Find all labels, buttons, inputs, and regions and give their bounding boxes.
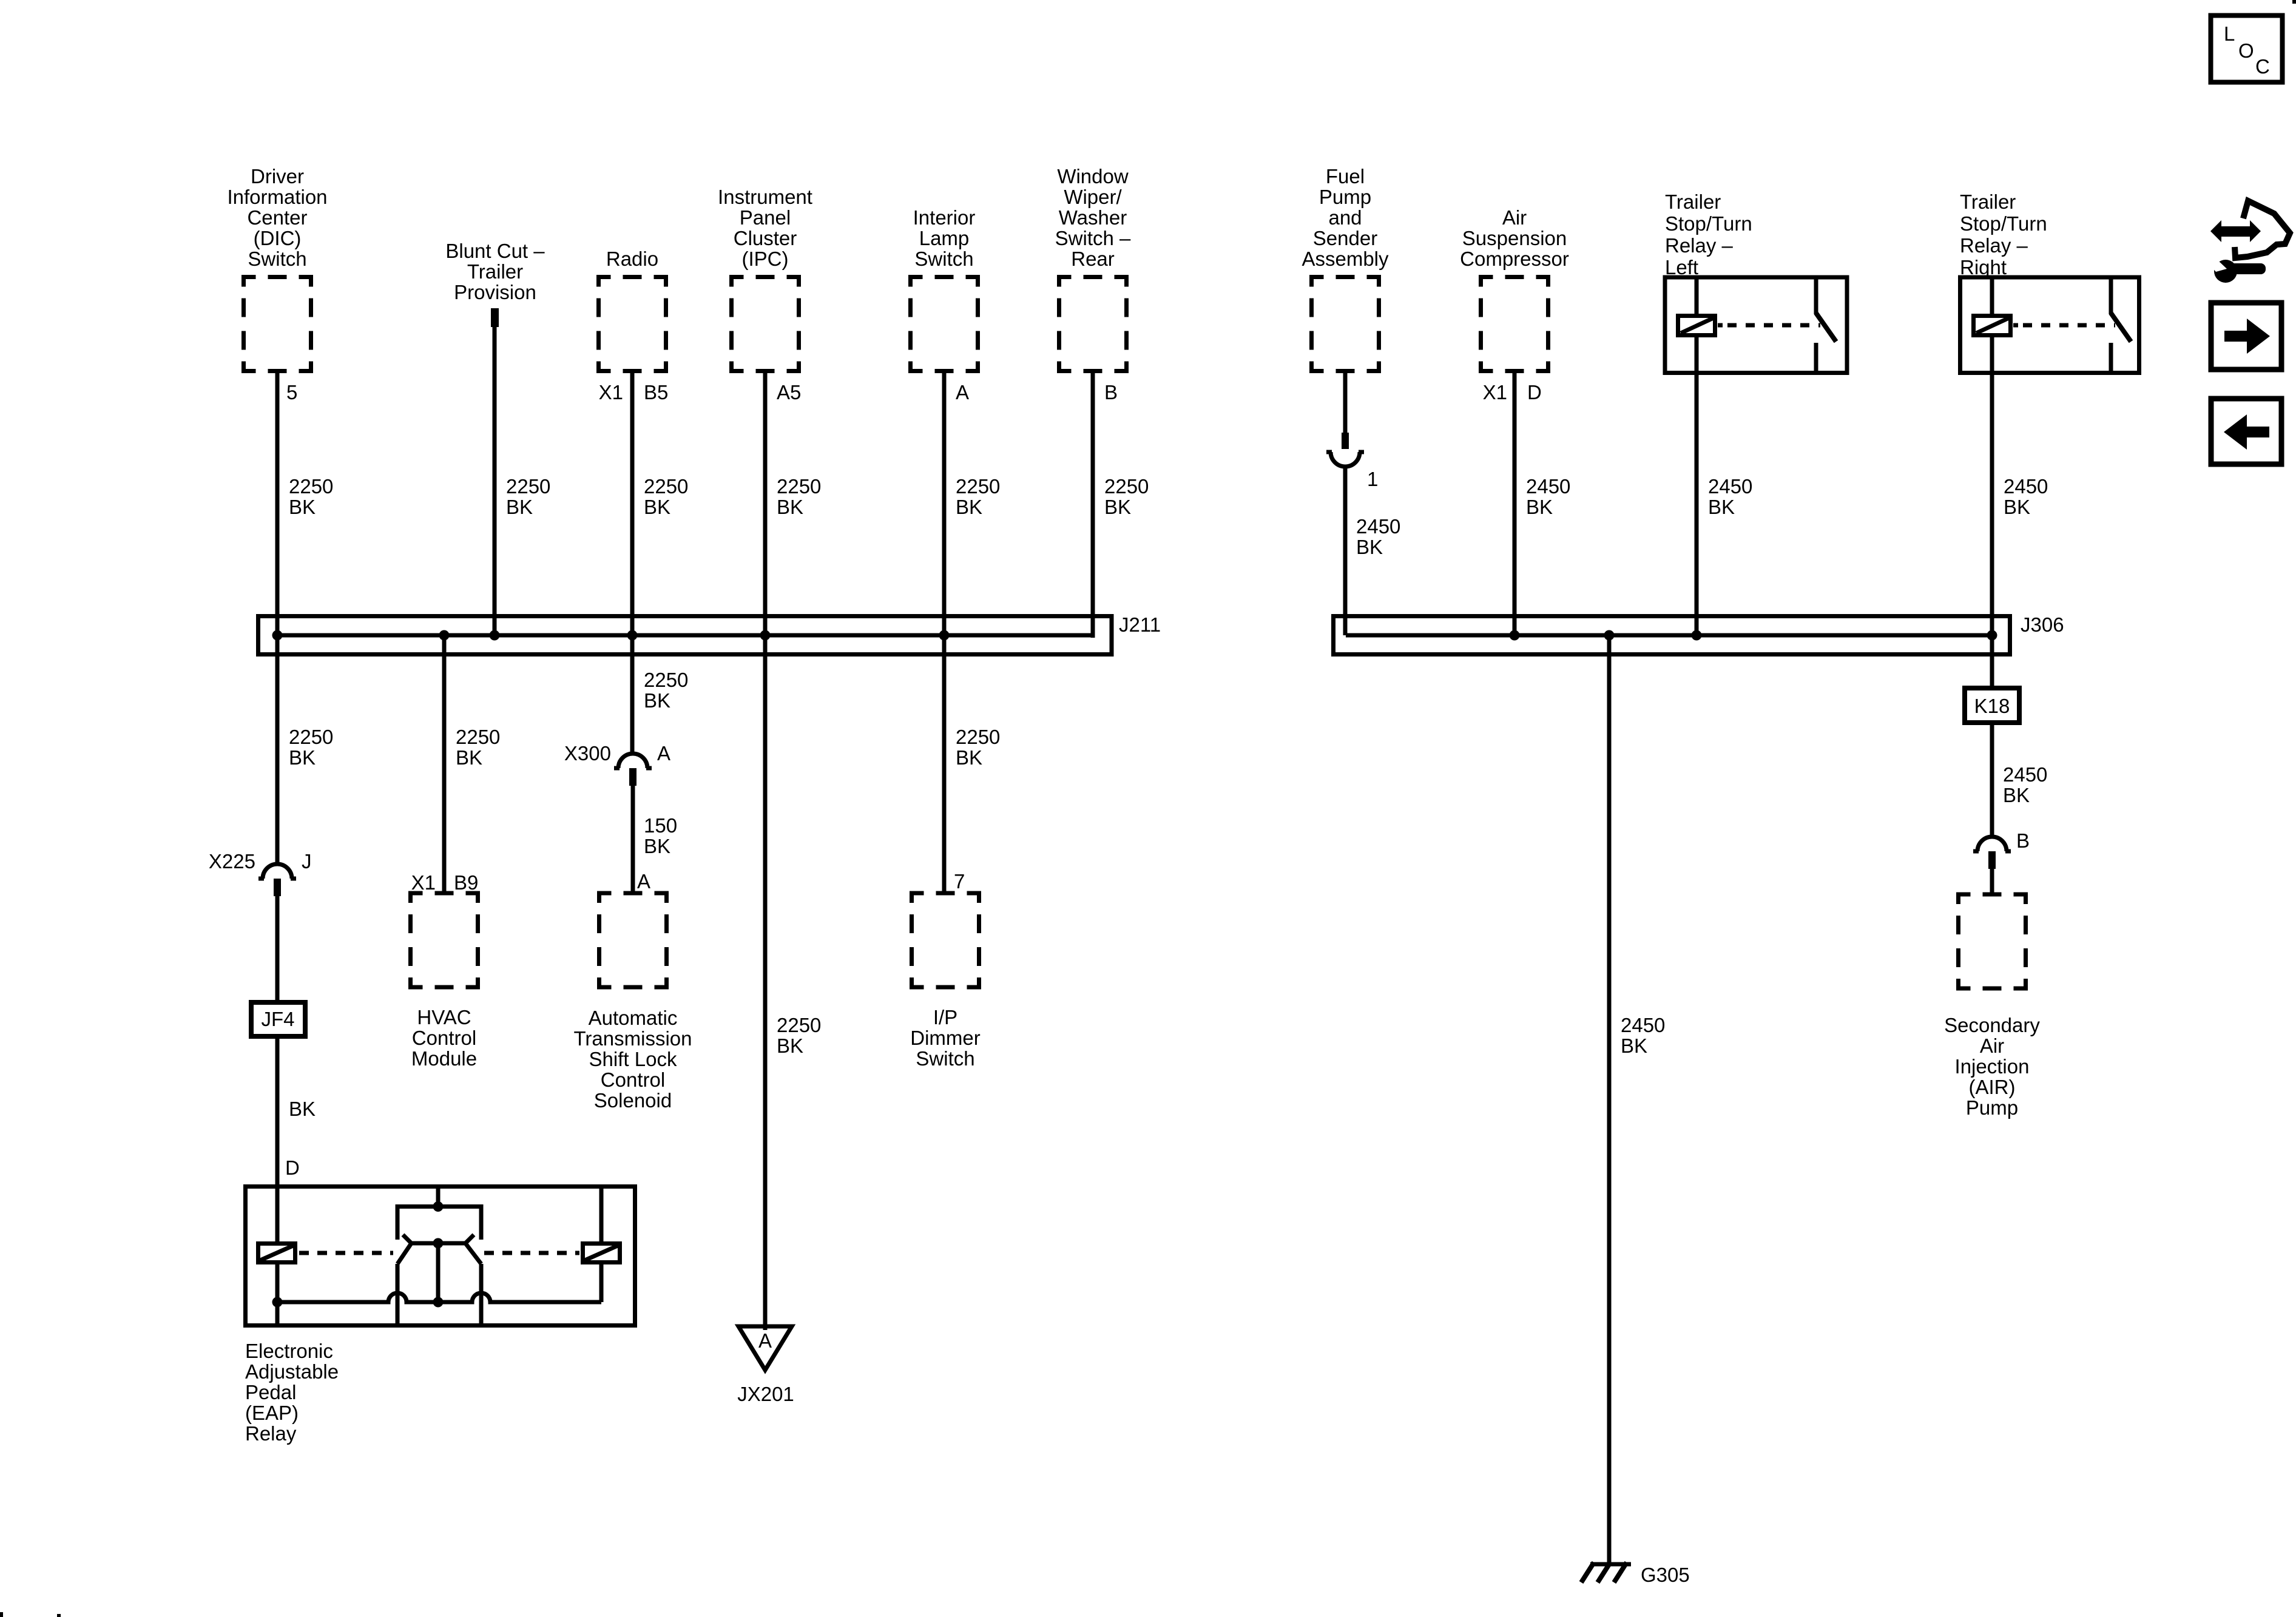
wire fuel pump to connector [1343,371,1348,434]
svg-text:X225: X225 [209,850,255,873]
svg-text:J306: J306 [2021,613,2064,636]
EAP dashed actuate line left [299,1251,393,1255]
junction dot radio [627,630,638,641]
trailer relay right switch blade [2111,313,2131,342]
J306 inner bus line [1346,633,1992,638]
svg-text:Information: Information [227,186,327,208]
svg-text:BK: BK [1621,1035,1647,1057]
wire EAP left coil lower [275,1263,280,1325]
splice pack JF4 box [251,1002,305,1036]
junction dot relay left [1692,630,1702,641]
svg-text:Stop/Turn: Stop/Turn [1960,212,2047,235]
fuel connector cup [1326,452,1364,467]
wire JF4 to EAP relay [275,1036,280,1186]
junction dot DIC [272,630,283,641]
wire EAP center leg [436,1243,441,1302]
svg-text:BK: BK [506,496,533,518]
junction dot G305 wire [1604,630,1615,641]
trailer relay right coil [1974,316,2011,336]
svg-text:Assembly: Assembly [1302,248,1389,270]
ground bus J211 box [258,616,1112,655]
DIC switch label [227,165,327,270]
svg-text:Radio: Radio [606,248,658,270]
svg-text:Rear: Rear [1071,248,1115,270]
EAP switch blade tick right [465,1235,474,1243]
IP dimmer label [910,1006,980,1070]
wire DIC to J211 [275,371,280,636]
svg-text:5: 5 [286,381,297,403]
svg-text:Washer: Washer [1059,206,1127,229]
wire J306 to K18 [1990,635,1994,688]
trailer relay left switch bottom stub [1814,343,1818,373]
svg-text:B: B [2016,829,2030,852]
svg-text:Injection: Injection [1955,1055,2030,1078]
svg-text:2250: 2250 [956,475,1000,498]
svg-text:C: C [2255,55,2270,78]
EAP common horizontal with jumps [277,1293,601,1302]
wire blunt cut to J211 [493,327,497,635]
svg-text:Air: Air [1502,206,1527,229]
svg-text:B9: B9 [454,871,478,894]
svg-text:BK: BK [1104,496,1131,518]
trailer relay left coil stub [1718,323,1723,328]
svg-text:B: B [1104,381,1118,403]
svg-text:Sender: Sender [1313,227,1377,249]
svg-text:Switch: Switch [914,248,973,270]
junction dot relay right [1987,630,1997,641]
svg-text:A: A [637,870,650,893]
svg-text:2450: 2450 [1526,475,1570,498]
trailer relay left dashed actuate line [1727,323,1820,328]
svg-text:HVAC: HVAC [417,1006,471,1028]
svg-text:Provision: Provision [454,281,536,303]
wire EAP right coil upper [599,1186,604,1241]
trailer relay left box [1665,277,1847,373]
EAP staple bridge [397,1207,481,1240]
svg-text:2450: 2450 [2004,475,2048,498]
wire EAP feed top [436,1186,441,1206]
wire J211 to X300 [630,635,635,754]
Interior Lamp Switch dashed box [911,277,978,371]
wire J211 to HVAC [442,635,447,893]
wire EAP switch left leg [396,1264,400,1325]
svg-text:BK: BK [289,746,316,769]
connector X300 arc [614,754,652,768]
Radio dashed box [599,277,666,371]
ground G305 symbol [1581,1562,1631,1582]
wire Wiper to J211 [1091,371,1095,638]
junction dot blunt cut [490,630,500,641]
trailer relay right label [1960,191,2047,279]
Air Suspension label [1460,206,1569,270]
svg-text:Relay –: Relay – [1960,234,2028,257]
EAP switch diagonal left [397,1243,411,1264]
J211 inner bus line [277,633,1093,638]
wire J211 to IP dimmer [942,635,947,893]
svg-text:Dimmer: Dimmer [910,1027,980,1049]
svg-text:(IPC): (IPC) [742,248,789,270]
wire connector B to AIR pump [1990,869,1994,894]
svg-text:Compressor: Compressor [1460,248,1569,270]
svg-text:J211: J211 [1119,613,1161,636]
svg-text:2450: 2450 [1621,1014,1665,1036]
svg-text:O: O [2238,39,2254,62]
EAP switch blade tick left [403,1235,411,1243]
svg-text:BK: BK [1356,536,1383,558]
EAP switch diagonal right [465,1243,481,1264]
Air suspension compressor dashed box [1481,277,1548,371]
fuel connector pin [1342,433,1349,449]
junction dot center leg to common [433,1297,444,1308]
connector X225 pin [274,879,281,896]
svg-text:BK: BK [289,1098,316,1120]
EAP relay left coil [258,1244,295,1263]
svg-text:2450: 2450 [1708,475,1752,498]
svg-text:2250: 2250 [289,726,333,748]
page corner speck top-right [2292,0,2296,4]
AIR pump label [1944,1014,2040,1119]
svg-text:Transmission: Transmission [574,1027,692,1050]
trailer relay left switch stub [1814,277,1818,314]
svg-text:K18: K18 [1974,695,2010,717]
junction dot HVAC [439,630,450,641]
svg-text:Shift Lock: Shift Lock [589,1048,677,1070]
connector AIR pump B arc [1973,837,2011,851]
svg-text:Adjustable: Adjustable [245,1360,339,1383]
wire J211 to JX201 [763,635,768,1330]
junction dot staple feed [433,1201,444,1212]
svg-text:BK: BK [777,496,803,518]
junction dot air suspension [1510,630,1520,641]
svg-text:Lamp: Lamp [919,227,970,249]
svg-text:G305: G305 [1641,1564,1690,1586]
wire air suspension to J306 [1513,371,1517,636]
svg-text:Stop/Turn: Stop/Turn [1665,212,1752,235]
svg-text:A5: A5 [777,381,801,403]
svg-text:BK: BK [777,1035,803,1057]
trailer relay left coil [1678,316,1715,336]
svg-text:2450: 2450 [2003,763,2047,786]
svg-text:Relay: Relay [245,1422,297,1445]
trailer relay left label [1665,191,1752,279]
connector AIR pump B pin [1988,851,1996,869]
EAP relay outer box [246,1187,635,1326]
svg-text:2250: 2250 [506,475,550,498]
wire IPC to J211 [763,371,768,636]
svg-text:Right: Right [1960,256,2007,279]
svg-text:BK: BK [2004,496,2030,518]
svg-text:BK: BK [1526,496,1553,518]
svg-text:Trailer: Trailer [1665,191,1721,213]
IPC dashed box [732,277,799,371]
svg-text:2450: 2450 [1356,515,1400,538]
svg-text:Pump: Pump [1966,1096,2018,1119]
svg-text:2250: 2250 [644,669,688,691]
junction dot interior lamp [939,630,950,641]
service adjust icon: double arrow [2210,220,2261,242]
junction dot IPC [760,630,771,641]
wire trailer relay right coil upper [1990,277,1994,314]
HVAC module dashed box [411,893,478,987]
legend left-arrow button [2211,399,2281,464]
svg-text:Panel: Panel [740,206,791,229]
svg-text:D: D [1527,381,1542,403]
trailer relay right box [1960,277,2139,373]
svg-text:BK: BK [1708,496,1735,518]
HVAC label [411,1006,477,1070]
IP dimmer switch dashed box [912,893,979,987]
svg-text:A: A [758,1329,772,1352]
svg-text:Wiper/: Wiper/ [1064,186,1122,208]
svg-text:X1: X1 [1483,381,1507,403]
svg-text:L: L [2224,22,2235,45]
svg-text:Control: Control [601,1068,665,1091]
Interior Lamp Switch label [913,206,976,270]
svg-text:Fuel: Fuel [1326,165,1365,187]
wire trailer relay right to J306 [1990,373,1994,635]
svg-text:2250: 2250 [1104,475,1149,498]
svg-text:2250: 2250 [644,475,688,498]
svg-text:J: J [302,850,312,873]
svg-text:Switch: Switch [916,1047,974,1070]
trailer relay right coil stub [2013,323,2018,328]
svg-text:2250: 2250 [289,475,333,498]
trailer relay right switch bottom stub [2109,343,2113,373]
svg-text:Control: Control [412,1027,476,1049]
secondary AIR pump dashed box [1959,894,2026,988]
wire trailer relay left coil upper [1695,277,1699,314]
Blunt Cut label [445,240,545,303]
svg-text:Window: Window [1057,165,1129,187]
ground bus J306 box [1334,616,2010,655]
svg-text:D: D [285,1156,300,1179]
trailer relay right switch stub [2109,277,2113,314]
svg-text:7: 7 [954,870,965,893]
EAP switch common bar [411,1241,465,1246]
svg-text:Solenoid: Solenoid [594,1089,672,1112]
svg-text:Suspension: Suspension [1462,227,1567,249]
service adjust icon: wrench [2211,258,2266,283]
svg-text:BK: BK [644,689,670,712]
wire X300 to solenoid [631,786,635,893]
svg-text:A: A [956,381,969,403]
connector X300 pin [629,768,636,786]
svg-text:X300: X300 [564,742,611,765]
svg-text:I/P: I/P [933,1006,957,1028]
svg-text:Relay –: Relay – [1665,234,1734,257]
EAP dashed actuate line right [484,1251,579,1255]
svg-text:BK: BK [289,496,316,518]
svg-text:and: and [1328,206,1362,229]
svg-text:Air: Air [1980,1035,2004,1057]
IPC label [718,186,812,270]
page corner specks bottom-left [0,1612,3,1617]
legend LOC box [2211,16,2283,83]
svg-text:X1: X1 [599,381,623,403]
svg-text:Electronic: Electronic [245,1340,333,1362]
svg-text:X1: X1 [411,871,436,894]
svg-text:A: A [657,742,670,765]
svg-text:JX201: JX201 [737,1383,794,1405]
svg-text:(AIR): (AIR) [1969,1076,2016,1098]
trailer relay left switch blade [1816,313,1836,342]
svg-text:2250: 2250 [456,726,500,748]
svg-text:Left: Left [1665,256,1698,279]
svg-text:2250: 2250 [777,1014,821,1036]
solenoid label [574,1007,692,1112]
Wiper switch dashed box [1059,277,1127,371]
wire Radio to J211 [630,371,635,636]
svg-text:JF4: JF4 [261,1008,294,1030]
svg-text:Cluster: Cluster [734,227,797,249]
svg-text:Module: Module [411,1047,477,1070]
svg-text:Switch: Switch [248,248,306,270]
svg-text:Instrument: Instrument [718,186,812,208]
svg-text:BK: BK [644,835,670,857]
svg-text:Pedal: Pedal [245,1381,296,1403]
wire J306 to G305 [1607,635,1612,1564]
svg-text:1: 1 [1367,468,1378,490]
Fuel Pump label [1302,165,1389,270]
connector X225 arc [258,864,296,879]
svg-text:Secondary: Secondary [1944,1014,2040,1036]
svg-text:2250: 2250 [956,726,1000,748]
wire EAP switch right leg [479,1264,484,1325]
junction dot switch bar [433,1238,444,1249]
wire Interior Lamp to J211 [942,371,947,636]
wire X225 to JF4 [275,896,280,1002]
svg-text:(EAP): (EAP) [245,1402,299,1424]
wire fuel connector to J306 [1343,467,1348,635]
wire trailer relay left to J306 [1695,373,1699,635]
shift lock solenoid dashed box [599,893,667,987]
trailer relay right dashed actuate line [2023,323,2115,328]
svg-text:150: 150 [644,814,677,837]
svg-text:Center: Center [247,206,307,229]
svg-text:BK: BK [2003,784,2030,806]
Fuel pump assembly dashed box [1312,277,1379,371]
svg-text:Trailer: Trailer [467,260,523,283]
svg-text:BK: BK [644,496,670,518]
svg-text:2250: 2250 [777,475,821,498]
wire J211 to X225 [275,635,280,864]
svg-text:Blunt Cut –: Blunt Cut – [445,240,545,262]
Window Wiper Washer Switch Rear label [1055,165,1131,270]
wire trailer relay right coil lower [1990,336,1994,373]
legend right-arrow button [2211,303,2281,370]
svg-text:BK: BK [956,496,982,518]
EAP relay right coil [583,1244,620,1263]
svg-text:B5: B5 [644,381,668,403]
svg-text:BK: BK [456,746,482,769]
blunt cut tip [491,308,499,327]
service adjust icon: pedal outline [2235,201,2290,258]
wire K18 to connector B [1990,723,1994,837]
junction dot left coil to common [272,1297,283,1308]
svg-text:Driver: Driver [251,165,304,187]
svg-text:Interior: Interior [913,206,976,229]
DIC switch dashed box [244,277,311,371]
svg-text:(DIC): (DIC) [254,227,302,249]
svg-text:Trailer: Trailer [1960,191,2016,213]
svg-text:Pump: Pump [1319,186,1371,208]
svg-text:Automatic: Automatic [589,1007,678,1029]
splice pack K18 box [1965,688,2019,723]
wire trailer relay left coil lower [1695,336,1699,373]
EAP relay label [245,1340,339,1445]
node JX201 triangle [738,1326,792,1370]
svg-text:BK: BK [956,746,982,769]
svg-text:Switch –: Switch – [1055,227,1131,249]
wire EAP right coil lower [599,1263,604,1302]
wire EAP left coil upper [275,1186,280,1241]
